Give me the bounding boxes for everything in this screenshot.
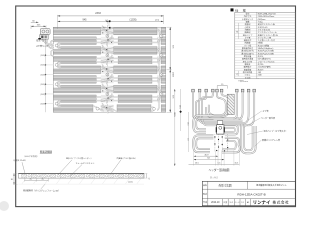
svg-text:断面詳細図: 断面詳細図 (40, 149, 53, 153)
svg-text:ヘッダー部詳細図: ヘッダー部詳細図 (209, 168, 230, 172)
section dim 30 left (11, 174, 18, 185)
joist strip band 6 left segment (53, 76, 96, 84)
mat outline (53, 27, 166, 112)
balloon label centre 3 (106, 73, 109, 76)
svg-text:1/1: 1/1 (241, 202, 244, 204)
svg-text:ページ: ページ (235, 201, 240, 204)
svg-text:(4.5): (4.5) (155, 19, 159, 21)
left edge U-bend gap 4 (54, 61, 61, 68)
header right loop lower (222, 138, 240, 153)
svg-text:(303): (303) (40, 84, 45, 86)
dim 325 connector (31, 25, 46, 30)
svg-text:945: 945 (83, 18, 88, 21)
centre channel pipe bend band 8 (101, 93, 114, 103)
section callout joist (12, 154, 39, 173)
joist strip band 8 right segment (118, 95, 152, 103)
joist strip band 6 right segment (118, 76, 152, 84)
centre channel faint hatch band 5 (101, 66, 114, 74)
joist strip band 1 left segment (53, 27, 101, 35)
scan smudge bottom-left (0, 201, 9, 211)
svg-text:2333×1818×t12mm: 2333×1818×t12mm (258, 15, 275, 18)
right channel pipe bend band 7 (157, 87, 160, 100)
balloon label centre 4 (106, 92, 109, 95)
centre channel pipe bend band 9 (101, 103, 114, 113)
svg-text:30: 30 (11, 179, 13, 181)
right channel faint hatch band 1 (157, 27, 161, 35)
svg-text:株式会社: 株式会社 (273, 200, 290, 205)
right channel pipe bend band 2 (157, 39, 159, 52)
section callout insulation (23, 184, 60, 192)
dim 64 centre marker (105, 20, 110, 22)
svg-text:180.5: 180.5 (173, 112, 175, 117)
header right callout ヘッダー (244, 116, 276, 128)
title block grid (202, 181, 295, 205)
svg-text:13.5: 13.5 (195, 163, 199, 165)
svg-text:75: 75 (30, 179, 32, 181)
right channel pipe bend band 3 (157, 49, 160, 62)
header dim row 13.5 / 5.5 / 15.5 (189, 163, 240, 165)
header connector body (216, 121, 225, 134)
svg-text:2: 2 (161, 55, 162, 57)
left pitch dimension line (44, 40, 53, 112)
svg-text:98kPa(1.0kgf/cm²): 98kPa(1.0kgf/cm²) (258, 47, 274, 50)
header left loop upper (193, 116, 213, 133)
header pipe bundle right group (233, 92, 254, 125)
centre channel faint hatch band 6 (101, 76, 114, 84)
spec table title 仕様 (231, 7, 247, 12)
left edge U-bend gap 2 (54, 42, 61, 49)
spec table rows text (241, 11, 278, 79)
joist strip band 3 right segment (114, 47, 157, 55)
centre channel pipe bend band 3 (101, 45, 114, 55)
svg-text:1: 1 (161, 36, 162, 38)
dim 2333 overall width (58, 12, 164, 17)
right channel faint hatch band 2 (157, 37, 161, 45)
right channel faint hatch band 7 (157, 85, 161, 93)
right channel faint hatch band 3 (157, 47, 161, 55)
channel top marker (103, 27, 110, 29)
svg-text:(14.5): (14.5) (128, 181, 133, 183)
svg-text:A3: A3 (247, 201, 249, 204)
header pipe bundle left group (193, 92, 249, 125)
svg-text:RDH-1ZEA-CK02T-B: RDH-1ZEA-CK02T-B (237, 192, 265, 196)
centre channel faint hatch band 9 (101, 105, 114, 113)
balloon label centre 2 (106, 54, 109, 57)
header right down-U loop (241, 124, 255, 153)
dim 60 sheet edge stub (31, 21, 39, 23)
svg-text:3: 3 (161, 74, 162, 76)
section joists and pipes (22, 174, 144, 178)
left edge U-bend gap 6 (54, 81, 61, 88)
connector pipes into mat (44, 39, 54, 48)
right edge strip band 3 (161, 47, 166, 55)
right edge strip band 6 (161, 76, 166, 84)
dim extension lines top (58, 15, 164, 29)
joist strip band 2 left segment (53, 37, 96, 45)
dim bracket 15 above stubs (217, 84, 227, 89)
svg-text:1818: 1818 (172, 72, 174, 78)
centre channel faint hatch band 2 (101, 37, 114, 45)
centre channel faint hatch band 8 (101, 95, 114, 103)
right edge strip band 9 (161, 105, 166, 113)
section callout foam (70, 161, 94, 176)
header detail left dim line B (179, 89, 182, 131)
hot water connector box (40, 29, 50, 35)
section bar body (18, 174, 144, 179)
title block row labels (203, 183, 207, 204)
right edge strip band 7 (161, 85, 166, 93)
svg-text:15: 15 (221, 84, 223, 86)
svg-text:(303): (303) (40, 103, 45, 105)
svg-text:75: 75 (42, 179, 44, 181)
sheet frame (16, 6, 296, 207)
centre channel pipe bend band 5 (101, 64, 114, 74)
header right callout 温水パイプ (247, 129, 288, 135)
joist strip band 8 left segment (53, 95, 96, 103)
right channel pipe bend band 1 (157, 29, 160, 42)
svg-text:2333: 2333 (95, 12, 101, 15)
company name リンナイ株式会社 (253, 200, 289, 206)
section dim 12 right (144, 174, 150, 180)
right edge strip band 5 (161, 66, 166, 74)
right channel faint hatch band 4 (157, 56, 161, 64)
dim (1205) right half (109, 18, 164, 22)
svg-text:35.5: 35.5 (179, 105, 181, 109)
band 4 notch pipes (96, 58, 157, 61)
connector lower body (40, 35, 49, 40)
centre channel pipe bend band 4 (101, 55, 114, 65)
header rivet dots (214, 136, 228, 151)
band 8 notch pipes (96, 97, 157, 100)
header pipe stubs (192, 89, 256, 92)
right edge strip band 4 (161, 56, 166, 64)
header hatched wall block (227, 94, 234, 114)
spec table grid (235, 12, 295, 79)
joist strip band 4 right segment (118, 56, 152, 64)
svg-text:2014.10: 2014.10 (211, 202, 220, 204)
svg-text:4: 4 (107, 55, 108, 57)
centre channel faint hatch band 1 (101, 27, 114, 35)
left edge bend band2 (50, 41, 53, 47)
header dim extension lines (194, 151, 240, 166)
svg-text:RDH-1ZEA-CK02T-B: RDH-1ZEA-CK02T-B (258, 12, 276, 15)
right channel pipe bend band 5 (157, 68, 160, 81)
svg-text:1/√2: 1/√2 (229, 201, 232, 204)
left pitch labels (40, 55, 45, 105)
header sleeve guide lines (215, 134, 228, 151)
right channel pipe bend band 8 (157, 97, 159, 110)
header right callout 架橋ポリエチレン管 (255, 138, 281, 147)
left edge U-bend gap 8 (54, 100, 61, 107)
svg-text:(303): (303) (40, 55, 45, 57)
header detail left dim line A (173, 89, 176, 166)
section underbar dim 75 75 (25, 178, 49, 181)
left edge bend band3 (51, 50, 54, 56)
section caption 断面詳細図 (40, 149, 53, 153)
right channel pipe bend band 4 (157, 58, 159, 71)
centre channel faint hatch band 3 (101, 47, 114, 55)
svg-text:(303): (303) (40, 94, 45, 96)
joist strip band 1 right segment (114, 27, 157, 35)
balloon label centre 1 (106, 34, 109, 37)
svg-text:0.6: 0.6 (103, 27, 105, 29)
right channel pipe bend band 6 (157, 78, 159, 91)
bottom band extra bends (93, 106, 155, 111)
svg-text:15.5: 15.5 (234, 163, 238, 165)
svg-text:12: 12 (148, 178, 150, 180)
header dim 45.9 (194, 154, 218, 156)
svg-text:4: 4 (161, 94, 162, 96)
svg-text:1.8: 1.8 (187, 138, 189, 141)
right channel faint hatch band 8 (157, 95, 161, 103)
right edge strip band 1 (161, 27, 166, 35)
svg-text:外形寸法図: 外形寸法図 (219, 183, 232, 187)
header right loop upper (225, 125, 238, 135)
dim 945 left half (58, 18, 110, 22)
joist strip band 9 right segment (117, 105, 151, 113)
band 2 notch pipes (96, 39, 157, 42)
section callout pipe (58, 156, 92, 175)
svg-text:3: 3 (107, 36, 108, 38)
svg-text:6: 6 (107, 94, 108, 96)
svg-text:(303): (303) (40, 65, 45, 67)
inner vertical dims 19.5 and 1.8 (187, 112, 189, 152)
joist strip band 3 left segment (53, 47, 101, 55)
centre channel pipe bend band 2 (101, 35, 114, 45)
right side vertical dim 1818 (167, 27, 174, 112)
svg-text:(303): (303) (40, 74, 45, 76)
centre channel pipe bend band 7 (101, 84, 114, 94)
scale cells (223, 200, 249, 204)
joist strip band 5 right segment (114, 66, 157, 74)
right edge strip band 2 (161, 37, 166, 45)
svg-text:19.5: 19.5 (187, 122, 189, 126)
band 6 notch pipes (96, 78, 157, 81)
centre channel pipe bend band 6 (101, 74, 114, 84)
joist strip band 5 left segment (53, 66, 101, 74)
centre channel pipe bend band 1 (101, 26, 114, 36)
right channel balloons (160, 34, 163, 96)
right edge strip band 8 (161, 95, 166, 103)
centre channel faint hatch band 7 (101, 85, 114, 93)
header left loop lower (193, 135, 213, 152)
svg-text:仕 様: 仕 様 (235, 7, 246, 12)
centre channel faint hatch band 4 (101, 56, 114, 64)
joist strip band 4 left segment (53, 56, 96, 64)
section callout aluminium (111, 156, 137, 173)
joist strip band 2 right segment (118, 37, 152, 45)
right channel faint hatch band 5 (157, 66, 161, 74)
right channel faint hatch band 6 (157, 76, 161, 84)
joist strip band 9 left segment (53, 105, 93, 113)
svg-text:(1205): (1205) (130, 18, 137, 21)
svg-text:5: 5 (107, 74, 108, 76)
joist strip band 7 right segment (114, 85, 157, 93)
header right callout さや管 (248, 109, 269, 121)
header dim 64 (194, 158, 224, 161)
mat centreline (106, 22, 108, 113)
section insulation layer (18, 179, 144, 185)
joist strip band 7 left segment (53, 85, 101, 93)
